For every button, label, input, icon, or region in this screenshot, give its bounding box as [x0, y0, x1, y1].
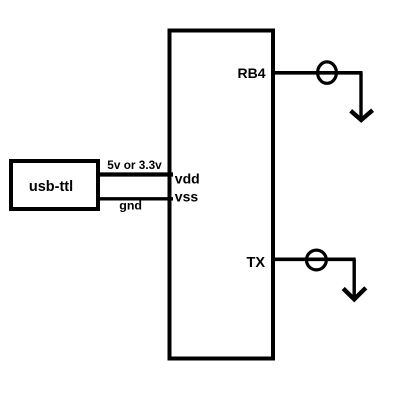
- svg-text:vss: vss: [175, 188, 199, 204]
- svg-text:RB4: RB4: [237, 65, 265, 81]
- svg-text:usb-ttl: usb-ttl: [29, 179, 73, 195]
- svg-text:vdd: vdd: [175, 171, 200, 187]
- svg-text:TX: TX: [246, 255, 265, 271]
- svg-text:gnd: gnd: [119, 199, 142, 213]
- svg-text:5v or 3.3v: 5v or 3.3v: [107, 158, 162, 172]
